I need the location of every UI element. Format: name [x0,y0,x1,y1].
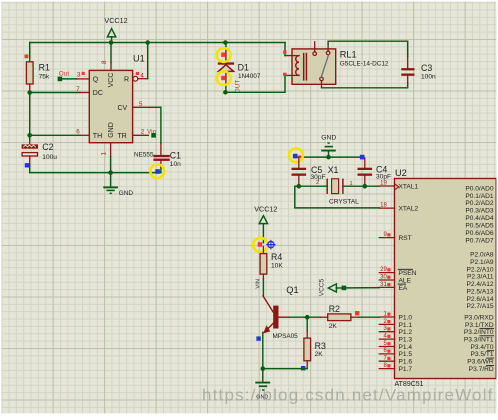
U2 right pin stubs [496,188,498,369]
op-amp U1 NE555 [89,54,154,159]
svg-text:P2.2/A10: P2.2/A10 [466,266,493,273]
resistor R2 [320,304,358,330]
pin 8 VCC stub [101,43,111,71]
svg-text:P2.3/A11: P2.3/A11 [467,274,494,281]
svg-text:100n: 100n [421,74,436,81]
svg-text:XTAL1: XTAL1 [399,183,419,190]
svg-text:10n: 10n [170,161,181,168]
U2 pin 19 (XTAL1) stub [379,180,394,186]
resistor R3 [304,331,326,369]
svg-text:19: 19 [380,180,387,186]
node U1 pin4 drop [145,40,150,45]
wire ground rail [30,172,161,174]
U2 right port labels [464,185,494,373]
relay RL1 [283,42,389,88]
svg-text:R: R [124,76,129,83]
svg-text:RST: RST [399,235,412,242]
svg-text:P3.6/WR: P3.6/WR [467,359,494,366]
marker R2 right [355,311,359,315]
svg-text:Out: Out [59,71,70,78]
power VCC12 (Q1 branch) [254,204,277,242]
svg-text:P3.0/RXD: P3.0/RXD [464,314,494,321]
power VCC12 (top) [104,16,127,43]
svg-text:P0.0/AD0: P0.0/AD0 [465,185,494,192]
svg-text:DC: DC [93,90,103,97]
U2 pin 2 (P1.1) stub [379,319,394,325]
svg-text:30: 30 [380,274,387,280]
svg-text:P0.4/AD4: P0.4/AD4 [465,215,494,222]
svg-text:TR: TR [118,133,127,140]
resistor R1 [25,55,50,93]
resistor R4 [260,247,283,279]
svg-text:C3: C3 [421,63,432,73]
overline INT0 [480,327,494,329]
wire left drop to R1 [29,43,31,58]
svg-text:VCC5: VCC5 [318,278,325,296]
svg-text:8: 8 [101,60,108,64]
svg-text:https://blog.csdn.net/VampireW: https://blog.csdn.net/VampireWolf [202,386,494,405]
capacitor C2 [22,140,58,168]
svg-text:P2.6/A14: P2.6/A14 [466,296,493,303]
node C1 highlight [150,164,164,178]
svg-text:R2: R2 [329,304,340,314]
pin 1 GND stub [101,143,111,173]
wire collector to R2/R3 junction [290,316,320,318]
crystal X1 [316,165,359,205]
svg-text:18: 18 [380,203,387,209]
diode D1 1N4007 [218,43,261,94]
overline RD [487,365,494,367]
svg-text:2K: 2K [329,323,338,330]
svg-text:P0.5/AD5: P0.5/AD5 [465,223,494,230]
transistor Q1 MPSA05 [263,285,299,340]
pin 6 TH stub [76,129,89,136]
svg-text:4: 4 [140,73,144,80]
wire TH pin6 [30,134,80,136]
svg-text:VIN: VIN [255,279,261,289]
wire relay pole to C3 bottom [322,83,408,88]
svg-text:R3: R3 [315,341,326,351]
svg-text:RL1: RL1 [340,50,357,60]
svg-text:P1.7: P1.7 [399,366,413,373]
pin 5 CV stub [133,101,161,144]
wire DC pin7 [30,92,80,94]
node R1/DC junction [27,90,32,95]
svg-text:Q: Q [93,76,99,83]
mcu U2 AT89C51 [395,168,497,388]
svg-text:2: 2 [141,128,145,135]
svg-text:P0.7/AD7: P0.7/AD7 [465,238,494,245]
svg-text:1: 1 [101,152,108,156]
svg-text:C1: C1 [170,150,181,160]
svg-text:P3.4/T0: P3.4/T0 [471,344,494,351]
wire R2 to P1.0 [358,316,379,318]
svg-text:Vin: Vin [147,128,157,135]
node R4 top highlight [253,238,275,252]
wire crystal-cap top rail [295,156,363,158]
ground (under U1) [103,173,133,198]
svg-text:P0.6/AD6: P0.6/AD6 [465,230,494,237]
svg-text:P3.2/INT0: P3.2/INT0 [464,329,494,336]
svg-text:PSEN: PSEN [399,270,417,277]
ground (crystal, inverted) [321,134,336,157]
svg-text:31: 31 [380,282,387,288]
svg-text:P2.4/A12: P2.4/A12 [466,281,493,288]
wire R4 to Q1 base [262,279,264,296]
U2 pin 18 (XTAL2) stub [379,203,394,209]
svg-text:3: 3 [77,72,81,79]
U2 pin 9 (RST) stub [379,232,394,238]
pin 3 Q stub [58,71,90,82]
node emitter/gnd junction [261,366,266,371]
svg-text:VCC12: VCC12 [254,204,277,213]
svg-text:P1.1: P1.1 [399,322,413,329]
svg-text:XTAL2: XTAL2 [399,206,419,213]
svg-text:P0.1/AD1: P0.1/AD1 [465,193,494,200]
U2 pin 7 (P1.6) stub [379,356,394,362]
svg-text:P0.3/AD3: P0.3/AD3 [465,208,494,215]
svg-text:7: 7 [76,86,80,93]
U2 pin 31 (EA) stub [379,282,394,288]
svg-text:U1: U1 [133,54,145,64]
svg-text:P1.5: P1.5 [399,351,413,358]
svg-text:75k: 75k [39,73,50,80]
wire relay NO contact to C3 top [328,41,408,56]
svg-text:P1.3: P1.3 [399,337,413,344]
svg-text:EA: EA [399,285,408,292]
wire top rail to relay coil [284,43,286,56]
wire C2 to ground rail [29,165,31,173]
wire crystal right to XTAL1 [343,185,379,187]
svg-text:OUT: OUT [235,80,242,94]
pin 2 TR stub [133,128,157,137]
svg-text:U2: U2 [395,168,407,178]
marker R3 bottom (blue) [301,366,305,370]
U2 pin 5 (P1.4) stub [379,341,394,347]
svg-text:10K: 10K [271,262,283,269]
node wire end marker (blue) [360,155,365,160]
U2 pin 8 (P1.7) stub [379,363,394,369]
svg-text:P3.1/TXD: P3.1/TXD [465,322,494,329]
overline T1 [487,350,493,352]
svg-text:P3.3/INT1: P3.3/INT1 [464,337,494,344]
node VCC12/U1 pin8 [109,40,114,45]
wire crystal left to XTAL2 [295,186,380,208]
pin 7 DC stub [76,86,89,93]
svg-text:C2: C2 [42,142,53,152]
U2 pin 4 (P1.3) stub [379,334,394,340]
node D1 anode corner [223,90,228,95]
svg-text:P2.7/A15: P2.7/A15 [466,303,493,310]
svg-text:P1.4: P1.4 [399,344,413,351]
svg-text:GND: GND [119,190,134,197]
capacitor C3 [401,57,436,84]
U2 pin 30 (ALE) stub [379,274,394,280]
svg-text:MPSA05: MPSA05 [273,333,299,340]
wire junction down to R3 [306,317,308,331]
svg-text:VCC: VCC [108,73,115,88]
capacitor C4 [358,158,392,186]
power VCC5 (EA) [318,278,379,296]
node D1 cathode highlight [217,48,231,62]
U2 pin 29 (PSEN) stub [379,267,394,273]
node pin1/ground [108,170,113,175]
node D1 anode highlight [217,71,231,85]
U2 pin 3 (P1.2) stub [379,326,394,332]
overline EA [398,283,405,285]
svg-text:P0.2/AD2: P0.2/AD2 [465,200,494,207]
svg-text:1N4007: 1N4007 [238,73,261,80]
svg-text:D1: D1 [238,63,249,73]
U2 pin 1 (P1.0) stub [379,311,394,317]
wire emitter to R3 bottom [263,368,307,370]
U2 left port labels [399,183,419,373]
wire anode rail to relay coil [225,75,285,92]
svg-text:P1.0: P1.0 [399,314,413,321]
svg-text:R4: R4 [271,252,282,262]
svg-text:VCC12: VCC12 [104,16,127,25]
blue marker near emitter [256,336,260,340]
svg-text:100u: 100u [42,154,57,161]
U2 pin 6 (P1.5) stub [379,348,394,354]
node D1 top [223,40,228,45]
node TH junction [27,133,32,138]
svg-text:GND: GND [108,122,115,138]
svg-text:GND: GND [321,134,336,141]
svg-text:TH: TH [93,133,102,140]
svg-text:NE555: NE555 [134,152,154,159]
svg-text:X1: X1 [328,165,339,175]
capacitor C5 [292,157,326,186]
svg-text:P1.6: P1.6 [399,359,413,366]
svg-text:CV: CV [118,105,128,112]
svg-text:P2.1/A9: P2.1/A9 [470,259,494,266]
wire top rail [30,42,285,44]
svg-text:P2.5/A13: P2.5/A13 [466,288,493,295]
svg-text:29: 29 [380,267,387,273]
capacitor C1 [153,144,181,173]
wire down to TH junction [29,93,31,140]
node C5/crystal junction [297,184,302,189]
svg-text:Q1: Q1 [286,285,298,295]
svg-text:6: 6 [76,129,80,136]
svg-text:P2.0/A8: P2.0/A8 [470,252,494,259]
svg-text:ALE: ALE [399,277,412,284]
svg-text:P1.2: P1.2 [399,329,413,336]
svg-text:R1: R1 [39,62,50,72]
ground (under Q1) [255,369,270,401]
svg-text:2: 2 [316,180,319,186]
svg-text:2K: 2K [315,351,324,358]
svg-text:G5CLE-14-DC12: G5CLE-14-DC12 [340,61,389,68]
overline INT1 [480,335,494,337]
svg-text:P3.7/RD: P3.7/RD [469,366,494,373]
node gnd junction [326,155,331,160]
node collector junction [305,315,310,320]
svg-text:5: 5 [139,101,143,108]
overline PSEN [398,268,412,270]
svg-text:P3.5/T1: P3.5/T1 [471,351,494,358]
node C5 highlight [289,148,303,162]
svg-text:CRYSTAL: CRYSTAL [329,199,359,206]
overline WR [487,357,494,359]
node C4/XTAL1 junction [363,184,368,189]
wire emitter down [262,332,264,368]
pin 4 R stub [133,43,148,82]
